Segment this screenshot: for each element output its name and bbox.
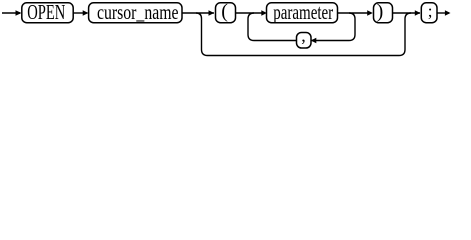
wire OPEN to cursor_name with arrowhead: [73, 12, 87, 14]
svg-text:parameter: parameter: [273, 0, 333, 24]
svg-text:OPEN: OPEN: [27, 0, 65, 24]
wire parameter to ) with arrowhead: [338, 12, 372, 14]
wire bypass loop (optional parameter list), from after cursor_name down, right, up to before ;: [196, 13, 411, 56]
terminal box parameter: [267, 0, 338, 24]
wire ) to ; with arrowhead: [393, 12, 421, 14]
wire exit arrow after ;: [437, 12, 449, 14]
punctuation box ): [374, 1, 393, 23]
wire comma repeat loop right side (branch down from main line): [254, 13, 355, 41]
terminal box cursor_name: [89, 0, 182, 24]
punctuation box (: [216, 1, 236, 23]
keyword box OPEN: [22, 0, 73, 24]
svg-text:,: ,: [301, 25, 306, 45]
wire cursor_name to ( with arrowhead: [182, 12, 214, 14]
punctuation box , on repeat loop: [297, 25, 312, 48]
wire comma repeat loop left side (merge up into main line): [248, 13, 254, 41]
arrowhead pointing left into , box: [311, 38, 317, 44]
svg-text:;: ;: [428, 2, 433, 21]
wire start arrow into OPEN: [2, 12, 20, 14]
wire ( to parameter with loop merge and arrowhead: [236, 12, 266, 14]
punctuation box ;: [421, 2, 437, 23]
svg-text:): ): [377, 1, 384, 23]
svg-text:(: (: [221, 1, 228, 23]
svg-text:cursor_name: cursor_name: [97, 0, 179, 24]
